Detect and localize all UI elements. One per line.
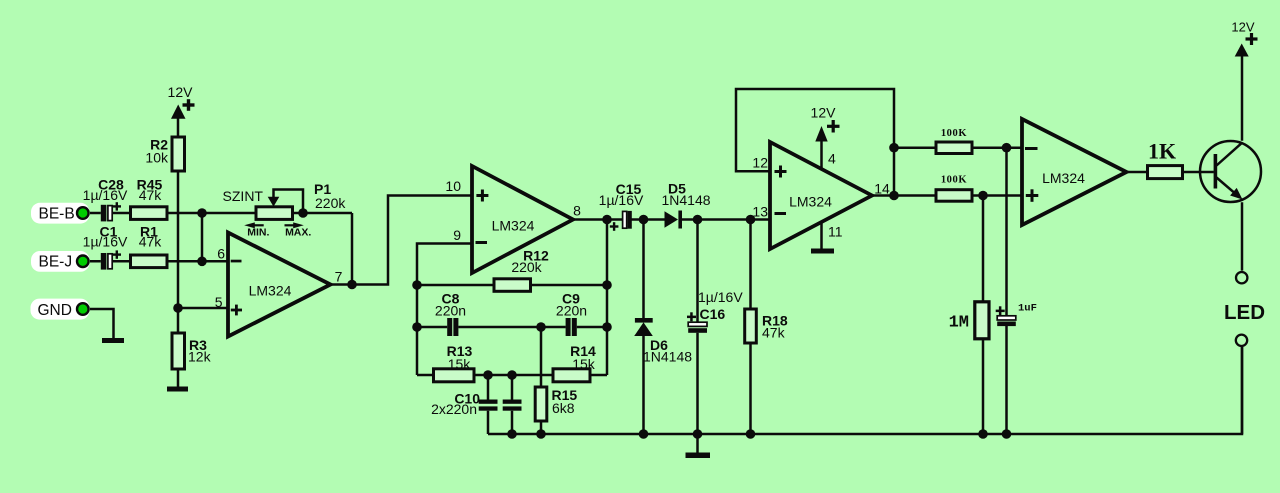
svg-text:9: 9 <box>453 227 461 243</box>
svg-text:GND: GND <box>38 302 72 319</box>
svg-text:1K: 1K <box>1148 139 1176 164</box>
svg-text:SZINT: SZINT <box>223 188 264 204</box>
svg-text:1N4148: 1N4148 <box>643 349 692 365</box>
svg-text:47k: 47k <box>139 233 163 249</box>
svg-text:12k: 12k <box>188 349 212 365</box>
svg-text:4: 4 <box>828 151 836 167</box>
svg-text:BE-B: BE-B <box>39 206 75 223</box>
svg-text:12V: 12V <box>1231 19 1254 34</box>
svg-text:47k: 47k <box>762 325 786 341</box>
svg-text:LM324: LM324 <box>1042 170 1085 186</box>
svg-text:14: 14 <box>874 181 890 197</box>
svg-text:LED: LED <box>1224 301 1265 324</box>
svg-text:LM324: LM324 <box>492 218 535 234</box>
svg-text:220k: 220k <box>315 195 346 211</box>
svg-text:12V: 12V <box>168 84 194 100</box>
svg-text:12V: 12V <box>811 105 837 121</box>
svg-text:6: 6 <box>217 246 225 262</box>
svg-text:1M: 1M <box>949 314 969 333</box>
svg-text:1N4148: 1N4148 <box>661 192 710 208</box>
svg-text:C16: C16 <box>700 306 726 322</box>
svg-text:6k8: 6k8 <box>552 400 575 416</box>
svg-text:MAX.: MAX. <box>285 226 311 238</box>
svg-text:1µ/16V: 1µ/16V <box>83 187 128 203</box>
svg-text:1uF: 1uF <box>1018 303 1037 315</box>
svg-text:1µ/16V: 1µ/16V <box>599 192 644 208</box>
svg-text:220n: 220n <box>556 302 587 318</box>
svg-text:1µ/16V: 1µ/16V <box>698 289 743 305</box>
svg-text:47k: 47k <box>139 187 163 203</box>
svg-text:MIN.: MIN. <box>247 226 269 238</box>
svg-text:15k: 15k <box>448 356 472 372</box>
svg-text:12: 12 <box>752 155 768 171</box>
svg-text:13: 13 <box>752 204 768 220</box>
svg-text:100K: 100K <box>941 128 968 139</box>
svg-text:220k: 220k <box>511 259 542 275</box>
svg-text:10: 10 <box>445 178 461 194</box>
svg-text:LM324: LM324 <box>249 283 292 299</box>
svg-text:100K: 100K <box>941 175 968 186</box>
svg-text:BE-J: BE-J <box>39 254 73 271</box>
svg-text:11: 11 <box>828 224 843 240</box>
svg-text:10k: 10k <box>145 150 169 166</box>
svg-text:7: 7 <box>335 269 343 285</box>
svg-text:220n: 220n <box>435 302 466 318</box>
svg-text:2x220n: 2x220n <box>431 401 477 417</box>
svg-text:15k: 15k <box>572 356 596 372</box>
svg-text:8: 8 <box>573 203 581 219</box>
svg-text:1µ/16V: 1µ/16V <box>83 233 128 249</box>
svg-text:5: 5 <box>215 294 223 310</box>
svg-text:LM324: LM324 <box>789 194 832 210</box>
